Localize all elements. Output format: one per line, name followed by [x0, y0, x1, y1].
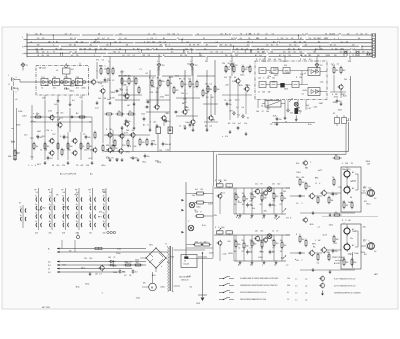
resistor R37 [168, 127, 173, 134]
svg-text:8,2k: 8,2k [64, 88, 68, 90]
svg-text:318: 318 [301, 177, 304, 179]
bus wire net4 labels [37, 44, 355, 47]
svg-text:2n2: 2n2 [224, 77, 227, 79]
legend symbol row 4 [219, 298, 234, 301]
svg-text:4u7: 4u7 [247, 45, 250, 47]
svg-text:68: 68 [183, 79, 185, 81]
wire [214, 60, 216, 115]
svg-text:15n: 15n [40, 137, 43, 139]
resistor R81 [134, 262, 143, 266]
ground symbol [137, 158, 140, 162]
svg-text:15n: 15n [335, 251, 338, 253]
svg-text:5c: 5c [89, 196, 91, 198]
svg-text:1,2: 1,2 [363, 241, 365, 243]
transistor TS11 [48, 138, 54, 145]
resistor R48 [195, 201, 206, 204]
svg-text:Sn: Sn [190, 286, 192, 288]
svg-text:205: 205 [124, 261, 127, 263]
svg-text:bn: bn [247, 118, 249, 120]
svg-text:TS: TS [53, 52, 55, 54]
resistor R44 [249, 65, 251, 74]
svg-text:8k2: 8k2 [228, 69, 231, 71]
capacitor C17 [151, 142, 157, 147]
svg-text:0,6: 0,6 [274, 264, 276, 266]
module U1 bottom stubs [45, 95, 82, 104]
svg-text:2k2: 2k2 [242, 240, 245, 242]
svg-text:a: a [31, 165, 32, 167]
ch2 mid labels [238, 248, 275, 250]
ground symbol [96, 101, 99, 105]
svg-text:330: 330 [184, 84, 187, 86]
ch1 row labels [255, 184, 280, 186]
svg-text:2n2: 2n2 [296, 260, 299, 262]
svg-text:220: 220 [320, 48, 323, 50]
svg-text:5c: 5c [49, 213, 51, 215]
svg-text:330: 330 [271, 52, 274, 54]
svg-text:220n: 220n [160, 287, 164, 289]
svg-text:47n: 47n [227, 241, 230, 243]
svg-text:318: 318 [218, 180, 221, 182]
svg-text:TS: TS [240, 33, 242, 35]
inter-row symbol [236, 215, 238, 218]
svg-text:8,2: 8,2 [147, 48, 149, 50]
resistor R24 [87, 142, 92, 151]
svg-text:b: b [150, 122, 151, 124]
svg-text:3a: 3a [103, 213, 105, 215]
svg-text:15nn: 15nn [273, 68, 277, 70]
svg-text:TS4: TS4 [76, 77, 79, 79]
module U1 signal chain wire [20, 81, 92, 83]
svg-text:4u7k: 4u7k [323, 235, 327, 237]
level pot P1a [217, 181, 224, 188]
svg-text:47: 47 [79, 97, 81, 99]
ground symbol [192, 128, 195, 132]
ch2 stage texture labels [295, 223, 366, 264]
svg-text:15n: 15n [147, 156, 150, 158]
mains transformer T1 [165, 243, 173, 292]
svg-text:330: 330 [268, 92, 271, 94]
svg-text:68: 68 [325, 34, 327, 36]
svg-text:410: 410 [35, 232, 38, 234]
capacitor C15 [47, 156, 53, 161]
svg-text:5,4: 5,4 [216, 41, 218, 43]
ch2 input wire [290, 252, 305, 254]
stage labels [222, 63, 237, 79]
resistor R34 [139, 138, 144, 147]
svg-text:47k: 47k [89, 48, 92, 50]
ch1 wiper arrow [283, 208, 287, 212]
svg-text:8,2: 8,2 [274, 217, 276, 219]
svg-text:8,2: 8,2 [271, 45, 273, 47]
svg-text:330: 330 [336, 239, 339, 241]
ch1 ground symbol [329, 213, 332, 217]
svg-text:a: a [108, 158, 109, 160]
switch column SK2 header [48, 189, 52, 194]
capacitor C3 [174, 111, 179, 114]
svg-text:0,6: 0,6 [356, 55, 358, 57]
switch contact SK0b [20, 215, 26, 221]
svg-text:1kk: 1kk [367, 163, 370, 165]
svg-text:70k: 70k [214, 215, 217, 217]
switch contact SK0a [20, 207, 26, 213]
resistor R1 [100, 67, 102, 76]
svg-text:2k2: 2k2 [255, 231, 258, 233]
svg-text:TS: TS [152, 48, 154, 50]
capacitor C16 [144, 154, 150, 159]
ground symbol [340, 102, 343, 106]
svg-text:220n: 220n [116, 253, 120, 255]
svg-text:2a: 2a [49, 204, 51, 206]
svg-text:12: 12 [74, 38, 76, 40]
svg-text:6,3: 6,3 [48, 272, 51, 274]
svg-text:GEMEENSCHAPPELIJK CHASSIS: GEMEENSCHAPPELIJK CHASSIS [334, 291, 362, 294]
svg-text:68: 68 [193, 45, 195, 47]
switch column SK4 header [75, 189, 79, 194]
svg-text:68: 68 [52, 165, 54, 167]
svg-text:318: 318 [128, 146, 131, 148]
svg-text:8k2: 8k2 [90, 146, 93, 148]
svg-text:2n2: 2n2 [340, 52, 343, 54]
svg-text:318: 318 [120, 90, 123, 92]
svg-text:0,6: 0,6 [129, 261, 131, 263]
power module inner labels [343, 228, 356, 260]
svg-text:10kn: 10kn [62, 265, 66, 267]
svg-text:15n: 15n [104, 48, 107, 50]
svg-text:2n2: 2n2 [277, 41, 280, 43]
svg-text:3a: 3a [103, 221, 105, 223]
svg-text:100n: 100n [99, 66, 103, 68]
svg-text:3a: 3a [76, 204, 78, 206]
svg-text:10k: 10k [118, 111, 121, 113]
svg-text:1kn: 1kn [24, 134, 27, 136]
wire [273, 235, 275, 241]
stage S3 labels [179, 79, 191, 95]
svg-text:330: 330 [335, 155, 338, 157]
resistor R17 [112, 67, 114, 76]
svg-text:350: 350 [348, 61, 351, 63]
resistor R30 [112, 144, 117, 153]
module U2 bottom stubs [258, 100, 306, 111]
svg-text:49: 49 [184, 260, 186, 262]
svg-text:110-245: 110-245 [184, 264, 190, 266]
wire [235, 246, 237, 261]
svg-text:10-4: 10-4 [287, 278, 290, 280]
svg-text:116: 116 [46, 130, 49, 132]
svg-text:3-4: 3-4 [49, 192, 52, 194]
svg-text:220: 220 [148, 55, 151, 57]
resistor R60 [251, 239, 256, 248]
svg-text:BCk: BCk [310, 224, 314, 226]
wire [281, 200, 283, 214]
svg-text:47k: 47k [134, 158, 137, 160]
bus wire net2 [27, 38, 372, 40]
svg-text:EF: EF [265, 38, 267, 40]
switch contact SK5a [89, 196, 95, 202]
svg-text:0,6: 0,6 [206, 97, 209, 99]
switch column SK4 wire [78, 188, 80, 230]
svg-text:15n: 15n [171, 52, 174, 54]
svg-text:2k2n: 2k2n [343, 96, 347, 98]
svg-text:5,4: 5,4 [177, 38, 179, 40]
driver transistor TS32 [308, 193, 314, 200]
wire [281, 235, 283, 243]
svg-text:47k: 47k [335, 212, 338, 214]
preset resistor R40 (hatched) [262, 101, 285, 108]
ch1 ground symbol [251, 214, 254, 218]
svg-text:4u7: 4u7 [195, 189, 198, 191]
ch1 ground symbol [239, 214, 242, 218]
ground symbol [69, 103, 72, 107]
svg-text:560: 560 [47, 55, 50, 57]
svg-text:68: 68 [350, 197, 352, 199]
diode D2 [109, 264, 116, 267]
svg-text:2k2: 2k2 [200, 189, 203, 191]
svg-text:100: 100 [242, 204, 245, 206]
capacitor C23 [246, 203, 253, 208]
svg-text:47n: 47n [240, 38, 243, 40]
svg-text:47k: 47k [99, 212, 102, 214]
svg-text:318: 318 [150, 92, 153, 94]
svg-text:~: ~ [48, 252, 49, 254]
legend symbol row 2 [219, 284, 234, 287]
svg-text:205: 205 [216, 52, 219, 54]
svg-text:15nk: 15nk [85, 284, 89, 286]
transistor TS17 [106, 132, 112, 139]
svg-text:2k2: 2k2 [272, 240, 275, 242]
svg-text:68: 68 [257, 48, 259, 50]
resistor R7 [128, 77, 133, 86]
module U1 top tick [79, 63, 81, 66]
svg-text:47k: 47k [288, 52, 291, 54]
svg-text:N-P-N TRANSISTOR BC157: N-P-N TRANSISTOR BC157 [334, 284, 356, 287]
svg-text:0,6n: 0,6n [185, 122, 189, 124]
svg-text:8,2n: 8,2n [202, 225, 206, 227]
svg-text:220k: 220k [361, 252, 365, 254]
resistor R38 [114, 139, 116, 148]
svg-text:47n: 47n [41, 55, 44, 57]
svg-text:0,6: 0,6 [209, 126, 212, 128]
svg-text:47k: 47k [296, 163, 299, 165]
svg-text:BCk: BCk [239, 85, 243, 87]
svg-text:207: 207 [205, 61, 208, 63]
transistor TS30 [217, 240, 223, 246]
input wire [13, 82, 15, 161]
svg-text:116n: 116n [37, 209, 41, 211]
svg-text:100: 100 [115, 148, 118, 150]
wire [243, 188, 245, 196]
svg-text:0,8: 0,8 [374, 251, 376, 253]
svg-text:220: 220 [268, 59, 271, 61]
bus wire net7 labels [37, 54, 358, 57]
ch2 ground symbol [263, 261, 266, 265]
svg-text:b: b [53, 45, 54, 47]
svg-text:L: L [9, 75, 10, 77]
supply drop wire [158, 67, 160, 76]
azimuth arrow [182, 231, 185, 233]
wire [235, 188, 237, 195]
resistor R28 [94, 131, 96, 140]
svg-text:b: b [277, 38, 278, 40]
svg-text:68: 68 [37, 55, 39, 57]
switch column SK6 header [102, 189, 106, 194]
module U1 block labels [41, 77, 79, 79]
svg-text:2n2: 2n2 [225, 45, 228, 47]
svg-text:10k: 10k [250, 201, 253, 203]
inter-row symbol [276, 216, 280, 220]
svg-text:a-b: a-b [305, 299, 307, 301]
svg-text:68: 68 [274, 59, 276, 61]
supply rail wire 6 [57, 271, 120, 273]
ch1 input wire [290, 195, 305, 197]
switch contact SK1b [35, 204, 41, 210]
ground symbol [276, 122, 279, 126]
svg-text:10k: 10k [42, 52, 45, 54]
svg-text:a: a [262, 264, 263, 266]
svg-text:330k: 330k [271, 81, 275, 83]
svg-text:47n: 47n [229, 104, 232, 106]
svg-text:2k2: 2k2 [35, 34, 38, 36]
resistor R14 [196, 80, 198, 89]
supply drop wire [231, 67, 233, 76]
bus end connector plug [367, 53, 370, 57]
svg-text:S: S [177, 34, 178, 36]
wire [62, 240, 75, 252]
left column texture labels [96, 66, 115, 102]
svg-text:47k: 47k [284, 65, 287, 67]
resistor R55 [261, 193, 266, 202]
left margin labels [8, 99, 20, 158]
svg-text:0,6: 0,6 [164, 41, 166, 43]
svg-text:100k: 100k [354, 253, 358, 255]
svg-text:8,2: 8,2 [350, 48, 352, 50]
switch contact SK6c [103, 213, 109, 219]
svg-text:47nk: 47nk [125, 151, 129, 153]
svg-text:1,2: 1,2 [286, 264, 288, 266]
transistor TS5 [160, 115, 166, 122]
switch contact SK4a [76, 196, 82, 202]
svg-text:S: S [144, 41, 145, 43]
svg-text:47kn: 47kn [246, 67, 250, 69]
svg-text:100: 100 [302, 182, 305, 184]
resistor R76 [333, 235, 338, 244]
resistor R36 [156, 127, 161, 134]
resistor R43 [242, 65, 247, 74]
svg-text:100: 100 [205, 93, 208, 95]
svg-text:285: 285 [283, 61, 286, 63]
capacitor C22 [336, 99, 342, 104]
svg-text:2n2: 2n2 [168, 121, 171, 123]
svg-text:S: S [169, 45, 170, 47]
capacitor C26 [269, 250, 275, 255]
svg-text:220: 220 [37, 38, 40, 40]
svg-text:10k: 10k [220, 34, 223, 36]
svg-text:10k: 10k [41, 48, 44, 50]
bus net5 terminal box [373, 49, 375, 51]
svg-text:220: 220 [171, 48, 174, 50]
ground symbol [169, 128, 172, 132]
wire [166, 250, 205, 286]
svg-text:68k: 68k [166, 113, 169, 115]
bus left rail [22, 33, 27, 57]
svg-text:70n: 70n [30, 157, 33, 159]
svg-text:318: 318 [48, 41, 51, 43]
svg-text:12n: 12n [232, 81, 235, 83]
svg-text:100n: 100n [342, 169, 346, 171]
svg-text:100n: 100n [249, 205, 253, 207]
svg-text:1k: 1k [179, 126, 181, 128]
resistor R13 [189, 80, 194, 89]
capacitor C8 [115, 90, 120, 93]
svg-text:S: S [302, 34, 303, 36]
svg-text:8,2n: 8,2n [308, 124, 312, 126]
capacitor C25 [246, 250, 252, 255]
svg-text:10k: 10k [134, 146, 137, 148]
switch contact SK5c [89, 213, 95, 219]
supply rail wire 4 [57, 264, 146, 266]
ground symbol [109, 101, 112, 105]
wire [251, 235, 253, 241]
resistor R58 [235, 240, 240, 249]
svg-text:47k: 47k [206, 45, 209, 47]
wire [251, 246, 253, 261]
svg-text:S: S [94, 55, 95, 57]
resistor R79 [333, 212, 342, 216]
svg-text:a: a [200, 241, 201, 243]
wire [110, 116, 170, 152]
svg-text:318: 318 [76, 41, 79, 43]
svg-text:1,2k: 1,2k [320, 82, 324, 84]
svg-text:0,6: 0,6 [242, 107, 245, 109]
ch2 ground symbol [251, 261, 254, 265]
midband supply rail wire [118, 75, 215, 77]
ground symbol [14, 157, 17, 161]
wire [314, 167, 347, 196]
comparator block B7 [308, 68, 320, 76]
svg-text:5,4: 5,4 [133, 55, 135, 57]
svg-text:47n: 47n [286, 217, 289, 219]
svg-text:1-2: 1-2 [36, 192, 39, 194]
svg-text:3a: 3a [35, 196, 37, 198]
wire [121, 70, 123, 117]
capacitor C13 [85, 135, 91, 140]
wire [149, 70, 151, 130]
svg-text:5,4: 5,4 [204, 48, 206, 50]
coupling node circle N1 [49, 81, 52, 84]
svg-text:70: 70 [133, 48, 135, 50]
wire [133, 76, 135, 126]
resistor R8 [135, 77, 137, 86]
svg-text:1-2: 1-2 [287, 299, 289, 301]
svg-text:3a: 3a [62, 196, 64, 198]
resistor R51 [201, 242, 212, 246]
svg-text:0,8: 0,8 [374, 198, 376, 200]
svg-text:15nk: 15nk [175, 75, 179, 77]
svg-text:68: 68 [156, 48, 158, 50]
svg-text:68: 68 [129, 275, 131, 277]
switch contact SK3a [62, 196, 68, 202]
svg-text:2k2: 2k2 [290, 113, 293, 115]
head cluster right rail wire [212, 186, 214, 258]
svg-text:BCn: BCn [45, 85, 49, 87]
stage S4 labels [205, 84, 215, 99]
wire [235, 235, 237, 242]
svg-text:b: b [263, 78, 264, 80]
wire [314, 224, 347, 253]
svg-text:2n2: 2n2 [259, 55, 262, 57]
record/play head K2 (circle-cross) [188, 225, 194, 231]
head area texture labels [192, 195, 217, 255]
resistor R39 [127, 139, 129, 148]
